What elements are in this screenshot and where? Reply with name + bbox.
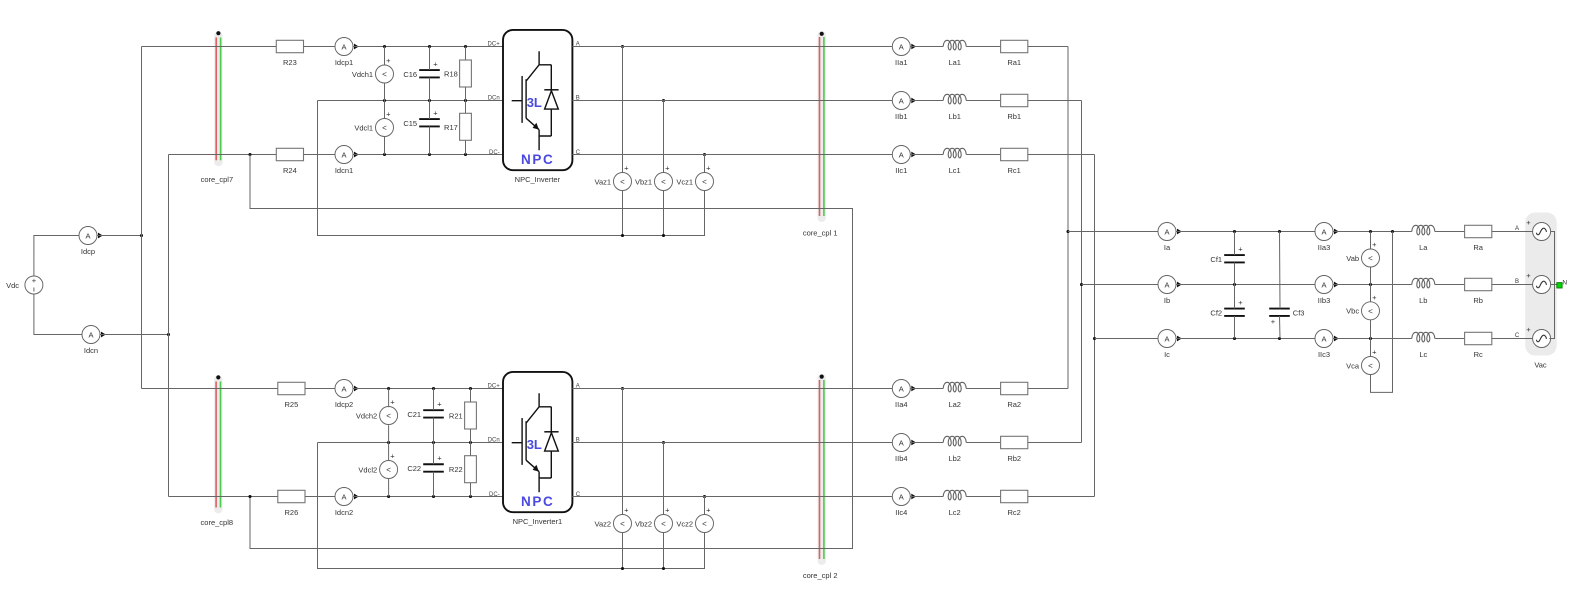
wire AC neutral bus: [1549, 232, 1557, 339]
capacitor C22: [407, 443, 443, 497]
wire Lc to Rc: [1435, 338, 1465, 340]
ammeter Ib: [1158, 276, 1182, 306]
svg-text:IIa4: IIa4: [895, 400, 908, 409]
svg-text:Lc2: Lc2: [949, 508, 961, 517]
capacitor C15: [403, 101, 439, 155]
ammeter Idcn2: [335, 488, 359, 518]
svg-text:Ra: Ra: [1473, 243, 1483, 252]
wire DC- rail 2 (left): [169, 496, 278, 498]
AC grid source block Vac (background box): [1525, 213, 1557, 356]
wire IIb4 to Lb2: [910, 442, 943, 444]
svg-text:+: +: [1526, 271, 1531, 280]
wire IIa3 to La: [1333, 230, 1412, 233]
svg-text:La2: La2: [948, 400, 961, 409]
wire IIc1 to Lc1: [910, 154, 943, 156]
voltmeter Vdch2: [356, 389, 398, 443]
wire phase C1: [572, 154, 892, 156]
ammeter IIb1: [892, 92, 916, 122]
svg-text:Vac: Vac: [1534, 360, 1547, 369]
svg-text:Vcz2: Vcz2: [676, 519, 693, 528]
svg-text:Ra1: Ra1: [1007, 58, 1021, 67]
svg-text:Lc: Lc: [1419, 350, 1427, 359]
resistor R24: [276, 148, 303, 175]
node N terminal: [1557, 280, 1568, 289]
DC voltage source Vdc: [6, 261, 43, 309]
svg-text:Idcn2: Idcn2: [335, 508, 353, 517]
wire Lc1 to Rc1: [966, 154, 1000, 156]
ammeter IIa1: [892, 38, 916, 68]
resistor R26: [278, 490, 305, 517]
svg-text:Rb: Rb: [1473, 296, 1483, 305]
svg-text:R17: R17: [444, 123, 458, 132]
svg-text:Rb1: Rb1: [1007, 112, 1021, 121]
svg-text:core_cpl7: core_cpl7: [201, 175, 234, 184]
svg-text:R21: R21: [449, 412, 463, 421]
voltmeter Vbc: [1346, 285, 1379, 339]
svg-text:Idcn: Idcn: [84, 346, 98, 355]
wire bus A vertical: [1066, 47, 1069, 389]
svg-text:Vdch1: Vdch1: [352, 70, 373, 79]
wire DC- rail 1 (left): [169, 154, 277, 156]
wire phase B1: [572, 100, 892, 102]
svg-text:Cf3: Cf3: [1293, 308, 1305, 317]
capacitor Cf1: [1210, 232, 1244, 285]
inductor Lb: [1412, 278, 1435, 305]
svg-text:Rb2: Rb2: [1007, 454, 1021, 463]
inductor Lb2: [943, 436, 966, 463]
svg-text:Vbz1: Vbz1: [635, 177, 652, 186]
svg-text:Vdch2: Vdch2: [356, 411, 377, 420]
svg-text:IIb1: IIb1: [895, 112, 908, 121]
svg-text:+: +: [1238, 244, 1243, 253]
svg-text:Rc2: Rc2: [1008, 508, 1021, 517]
svg-text:R26: R26: [285, 508, 299, 517]
resistor Rc: [1465, 332, 1492, 359]
svg-text:R24: R24: [283, 166, 297, 175]
svg-text:R23: R23: [283, 58, 297, 67]
svg-text:+: +: [1271, 317, 1276, 326]
wire Rc1 to bus C: [1028, 154, 1095, 156]
three-core cable core_cpl 2: [803, 374, 838, 580]
three-core cable core_cpl8: [201, 375, 234, 527]
svg-text:B: B: [1515, 279, 1519, 285]
wire Vdc- to Idcn: [34, 309, 82, 335]
wire IIa1 to La1: [910, 46, 943, 48]
voltmeter Vdch1: [352, 47, 394, 101]
svg-text:Lb2: Lb2: [948, 454, 961, 463]
svg-text:Ia: Ia: [1164, 243, 1171, 252]
svg-text:IIa1: IIa1: [895, 58, 908, 67]
inductor Lb1: [943, 94, 966, 121]
wire bus C to Ic: [1095, 338, 1159, 340]
inductor La2: [943, 382, 966, 409]
three-core cable core_cpl7: [201, 31, 234, 184]
resistor Rc1: [1001, 148, 1028, 175]
svg-text:+: +: [32, 276, 37, 285]
svg-text:core_cpl 2: core_cpl 2: [803, 571, 838, 580]
resistor R21: [449, 389, 476, 443]
inductor Lc: [1412, 332, 1435, 359]
wire bus A to Ia: [1068, 231, 1158, 233]
wire Idcp2 to NPC DC+: [353, 387, 624, 390]
svg-text:Lb: Lb: [1419, 296, 1427, 305]
svg-text:Vca: Vca: [1346, 361, 1360, 370]
wire La2 to Ra2: [966, 388, 1000, 390]
voltmeter Vaz2: [595, 389, 632, 569]
svg-text:A: A: [1515, 226, 1519, 232]
wire Ra to source A: [1492, 218, 1533, 232]
svg-text:C21: C21: [407, 410, 421, 419]
resistor Ra: [1465, 225, 1492, 252]
voltmeter Vaz1: [595, 47, 632, 236]
wire Rb1 to bus B: [1028, 100, 1082, 102]
ammeter IIb4: [892, 434, 916, 464]
capacitor Cf3: [1269, 232, 1304, 339]
svg-text:Idcn1: Idcn1: [335, 166, 353, 175]
ammeter IIc4: [892, 488, 916, 518]
svg-text:C22: C22: [407, 464, 421, 473]
svg-text:core_cpl 1: core_cpl 1: [803, 229, 838, 238]
svg-text:La1: La1: [948, 58, 961, 67]
wire DC- vertical bus: [168, 155, 170, 497]
svg-text:Cf2: Cf2: [1210, 308, 1222, 317]
svg-text:Vdc: Vdc: [6, 281, 19, 290]
ammeter IIa4: [892, 380, 916, 410]
wire DCn rail 1: [318, 99, 666, 102]
svg-text:La: La: [1419, 243, 1428, 252]
wire Rb2 to bus B: [1028, 442, 1082, 444]
label Vac: [1534, 360, 1547, 369]
wire phase A1: [572, 46, 892, 48]
wire Idcp1 to NPC DC+: [353, 45, 624, 48]
resistor Rb2: [1001, 436, 1028, 463]
wire R24 to Idcn1: [304, 154, 336, 156]
wire bus B vertical: [1080, 101, 1083, 443]
voltmeter Vdcl1: [354, 101, 393, 155]
svg-text:IIb3: IIb3: [1318, 296, 1331, 305]
svg-text:C16: C16: [403, 70, 417, 79]
wire Rc2 to bus C: [1028, 496, 1095, 498]
wire Idcn1 to NPC DC-: [248, 153, 706, 156]
wire R26 to Idcn2: [305, 496, 335, 498]
inductor Lc2: [943, 490, 966, 517]
wire Ic to IIc3: [1176, 337, 1315, 340]
wire Idcn to DC- bus: [100, 333, 170, 336]
resistor Rc2: [1001, 490, 1028, 517]
wire phase A2: [572, 388, 892, 390]
voltmeter Vbz1: [635, 101, 673, 236]
svg-text:+: +: [1238, 298, 1243, 307]
wire IIb1 to Lb1: [910, 100, 943, 102]
wire Ia to IIa3: [1176, 230, 1315, 233]
svg-text:Lb1: Lb1: [948, 112, 961, 121]
wire R25 to Idcp2: [305, 388, 335, 390]
wire R23 to Idcp1: [304, 46, 336, 48]
svg-text:C: C: [1515, 333, 1520, 339]
svg-text:IIb4: IIb4: [895, 454, 908, 463]
wire Vdc+ to Idcp: [34, 236, 79, 262]
inductor Lc1: [943, 148, 966, 175]
wire Lb1 to Rb1: [966, 100, 1000, 102]
ammeter Idcp1: [335, 38, 359, 68]
wire bus B to Ib: [1082, 284, 1159, 286]
svg-text:Vdcl2: Vdcl2: [358, 465, 377, 474]
svg-text:+: +: [437, 399, 442, 408]
resistor Ra2: [1001, 382, 1028, 409]
ammeter IIc3: [1315, 330, 1339, 360]
wire Idcp to DC+ bus: [97, 234, 143, 237]
ammeter Idcp: [79, 227, 103, 257]
wire DCn rail 2: [318, 441, 666, 444]
inductor La1: [943, 40, 966, 67]
wire neutral sense net 1 (DCn to Vaz1/Vbz1/Vcz1): [318, 101, 705, 238]
svg-text:Vbz2: Vbz2: [635, 519, 652, 528]
wire Ra2 to bus A: [1028, 388, 1068, 390]
ammeter IIc1: [892, 146, 916, 176]
wire IIc4 to Lc2: [910, 496, 943, 498]
AC source phase B: [1533, 276, 1551, 294]
wire IIc3 to Lc: [1333, 337, 1412, 340]
svg-text:IIa3: IIa3: [1318, 243, 1331, 252]
svg-text:Vab: Vab: [1346, 254, 1359, 263]
svg-text:Ic: Ic: [1164, 350, 1170, 359]
voltmeter Vcz2: [676, 497, 713, 533]
wire IIb3 to Lb: [1333, 283, 1412, 286]
svg-text:Lc1: Lc1: [949, 166, 961, 175]
svg-text:+: +: [433, 59, 438, 68]
svg-text:core_cpl8: core_cpl8: [201, 518, 234, 527]
svg-text:NPC_Inverter1: NPC_Inverter1: [513, 517, 563, 526]
svg-text:+: +: [1526, 325, 1531, 334]
svg-text:Vaz2: Vaz2: [595, 519, 612, 528]
ammeter IIb3: [1315, 276, 1339, 306]
wire Ra1 to bus A: [1028, 46, 1068, 48]
svg-text:IIc3: IIc3: [1318, 350, 1330, 359]
svg-text:N: N: [1562, 280, 1567, 287]
wire Lb2 to Rb2: [966, 442, 1000, 444]
wire bus C vertical: [1093, 155, 1096, 497]
svg-text:Cf1: Cf1: [1210, 255, 1222, 264]
ammeter Idcp2: [335, 380, 359, 410]
svg-text:R25: R25: [285, 400, 299, 409]
wire neutral sense net 2 (DCn to Vaz2/Vbz2/Vcz2): [318, 443, 705, 571]
resistor Rb: [1465, 278, 1492, 305]
svg-text:Vbc: Vbc: [1346, 307, 1359, 316]
svg-text:Ra2: Ra2: [1007, 400, 1021, 409]
AC source phase A: [1533, 223, 1551, 241]
svg-text:C15: C15: [403, 119, 417, 128]
voltmeter Vca: [1346, 339, 1379, 375]
ammeter Ia: [1158, 223, 1182, 253]
resistor R18: [444, 47, 471, 101]
voltmeter Vdcl2: [358, 443, 397, 497]
wire Idcn2 to NPC DC-: [248, 495, 706, 498]
svg-text:Rc1: Rc1: [1008, 166, 1021, 175]
wire La1 to Ra1: [966, 46, 1000, 48]
svg-text:Vaz1: Vaz1: [595, 177, 612, 186]
wire phase C2: [572, 496, 892, 498]
svg-text:Idcp: Idcp: [81, 247, 95, 256]
svg-text:R18: R18: [444, 70, 458, 79]
resistor R17: [444, 101, 471, 155]
svg-text:Idcp1: Idcp1: [335, 58, 353, 67]
wire La to Ra: [1435, 231, 1465, 233]
svg-text:Rc: Rc: [1474, 350, 1483, 359]
svg-text:+: +: [1526, 218, 1531, 227]
wire phase B2: [572, 442, 892, 444]
wire DC+ rail 2 (left): [142, 388, 278, 390]
resistor Ra1: [1001, 40, 1028, 67]
AC source phase C: [1533, 330, 1551, 348]
svg-text:NPC_Inverter: NPC_Inverter: [515, 175, 561, 184]
svg-text:Vcz1: Vcz1: [676, 177, 693, 186]
resistor Rb1: [1001, 94, 1028, 121]
wire DC+ vertical bus: [141, 47, 143, 389]
resistor R22: [449, 443, 476, 497]
svg-text:+: +: [437, 454, 442, 463]
NPC inverter block NPC_Inverter: [488, 30, 581, 184]
inductor La: [1412, 225, 1435, 252]
capacitor Cf2: [1210, 285, 1244, 339]
wire Rb to source B: [1492, 271, 1533, 285]
svg-text:Idcp2: Idcp2: [335, 400, 353, 409]
wire Lb to Rb: [1435, 284, 1465, 286]
resistor R25: [278, 382, 305, 409]
wire Rc to source C: [1492, 325, 1533, 339]
capacitor C21: [407, 389, 443, 443]
wire Ib to IIb3: [1176, 283, 1315, 286]
wire IIa4 to La2: [910, 388, 943, 390]
wire Vca return to phase A: [1371, 232, 1393, 393]
ammeter Idcn1: [335, 146, 359, 176]
capacitor C16: [403, 47, 439, 101]
svg-text:Vdcl1: Vdcl1: [354, 123, 373, 132]
svg-text:IIc1: IIc1: [895, 166, 907, 175]
svg-text:+: +: [433, 108, 438, 117]
voltmeter Vab: [1346, 232, 1379, 285]
voltmeter Vcz1: [676, 155, 713, 191]
ammeter IIa3: [1315, 223, 1339, 253]
voltmeter Vbz2: [635, 443, 673, 569]
svg-text:R22: R22: [449, 465, 463, 474]
NPC inverter block NPC_Inverter1: [488, 372, 581, 526]
resistor R23: [276, 40, 303, 67]
svg-text:IIc4: IIc4: [895, 508, 907, 517]
three-core cable core_cpl 1: [803, 31, 838, 238]
wire DC+ rail 1 (left): [142, 46, 277, 48]
wire DC- tie between modules: [250, 155, 853, 549]
ammeter Idcn: [82, 326, 106, 356]
svg-text:Ib: Ib: [1164, 296, 1170, 305]
wire Lc2 to Rc2: [966, 496, 1000, 498]
ammeter Ic: [1158, 330, 1182, 360]
